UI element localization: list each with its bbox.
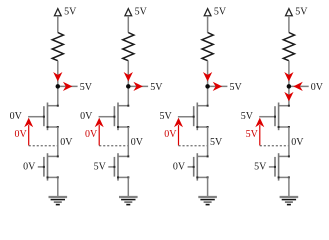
red current arrow into node (circuit 2) <box>125 73 132 81</box>
wire supply to resistor (circuit 1) <box>57 16 59 33</box>
red arrow output current (circuit 1) <box>64 83 72 90</box>
svg-text:5V: 5V <box>159 111 172 122</box>
svg-text:0V: 0V <box>60 137 73 148</box>
red Vgs arrow upper transistor (circuit 3) <box>178 125 180 145</box>
svg-text:5V: 5V <box>295 7 308 18</box>
ground symbol (circuit 3) <box>198 196 217 198</box>
svg-text:5V: 5V <box>230 82 243 93</box>
svg-text:5V: 5V <box>80 82 93 93</box>
ground symbol (circuit 4) <box>280 196 299 198</box>
transistor M1a upper nMOS <box>48 105 58 107</box>
svg-text:0V: 0V <box>14 129 27 140</box>
wire resistor to node (circuit 3) <box>207 61 209 106</box>
node OUT (circuit 4) <box>287 84 292 89</box>
transistor M3b lower nMOS <box>197 155 207 157</box>
wire source to ground (circuit 2) <box>127 177 129 196</box>
svg-text:5V: 5V <box>94 162 107 173</box>
svg-text:5V: 5V <box>254 162 267 173</box>
svg-text:5V: 5V <box>246 129 259 140</box>
wire resistor to node (circuit 2) <box>127 61 129 106</box>
svg-text:5V: 5V <box>64 7 77 18</box>
wire output branch (circuit 3) <box>208 85 228 87</box>
resistor pull-up R4 <box>283 33 294 61</box>
red arrow output current (circuit 3) <box>214 83 222 90</box>
wire output branch (circuit 4) <box>289 85 309 87</box>
transistor M2b lower nMOS <box>118 155 128 157</box>
transistor M1b lower nMOS <box>48 155 58 157</box>
wire supply to resistor (circuit 4) <box>288 16 290 33</box>
red arrow output current (circuit 2) <box>135 83 143 90</box>
red Vgs arrow upper transistor (circuit 1) <box>28 125 30 145</box>
resistor pull-up R2 <box>123 33 134 61</box>
dashed source reference line (circuit 3) <box>179 145 208 147</box>
ground symbol (circuit 1) <box>49 196 68 198</box>
red arrow current into output node (circuit 4) <box>294 83 302 90</box>
red current arrow into node (circuit 3) <box>204 73 211 81</box>
red current arrow into node (circuit 1) <box>54 73 61 81</box>
node OUT (circuit 3) <box>205 84 210 89</box>
transistor M2a upper nMOS <box>118 105 128 107</box>
svg-text:0V: 0V <box>164 129 177 140</box>
transistor M4b lower nMOS <box>279 155 289 157</box>
wire source to drain (circuit 2) <box>127 127 129 156</box>
red Vgs arrow upper transistor (circuit 4) <box>259 125 261 145</box>
dashed source reference line (circuit 2) <box>99 145 128 147</box>
red current arrow into pull-down (circuit 4) <box>285 93 292 101</box>
node OUT (circuit 2) <box>126 84 131 89</box>
wire resistor to node (circuit 4) <box>288 61 290 106</box>
svg-text:0V: 0V <box>85 129 98 140</box>
red current arrow into node (circuit 4) <box>285 73 292 81</box>
resistor pull-up R1 <box>52 33 63 61</box>
wire source to drain (circuit 4) <box>288 127 290 156</box>
svg-text:0V: 0V <box>23 162 36 173</box>
svg-text:0V: 0V <box>10 111 23 122</box>
wire source to drain (circuit 1) <box>57 127 59 156</box>
dashed source reference line (circuit 4) <box>260 145 289 147</box>
red Vgs arrow upper transistor (circuit 2) <box>98 125 100 145</box>
svg-text:0V: 0V <box>173 162 186 173</box>
wire source to ground (circuit 3) <box>207 177 209 196</box>
wire output branch (circuit 1) <box>58 85 78 87</box>
svg-text:5V: 5V <box>150 82 163 93</box>
power supply symbol VDD (circuit 1) <box>54 9 61 16</box>
svg-text:5V: 5V <box>135 7 148 18</box>
svg-text:5V: 5V <box>241 111 254 122</box>
svg-text:5V: 5V <box>214 7 227 18</box>
svg-text:0V: 0V <box>311 82 324 93</box>
transistor M3a upper nMOS <box>197 105 207 107</box>
wire source to ground (circuit 4) <box>288 177 290 196</box>
wire supply to resistor (circuit 2) <box>127 16 129 33</box>
svg-text:5V: 5V <box>210 137 223 148</box>
svg-text:0V: 0V <box>80 111 93 122</box>
wire source to drain (circuit 3) <box>207 127 209 156</box>
power supply symbol VDD (circuit 4) <box>286 9 293 16</box>
ground symbol (circuit 2) <box>119 196 138 198</box>
wire output branch (circuit 2) <box>128 85 148 87</box>
wire supply to resistor (circuit 3) <box>207 16 209 33</box>
transistor M4a upper nMOS <box>279 105 289 107</box>
power supply symbol VDD (circuit 2) <box>125 9 132 16</box>
wire resistor to node (circuit 1) <box>57 61 59 106</box>
svg-text:0V: 0V <box>291 137 304 148</box>
resistor pull-up R3 <box>202 33 213 61</box>
svg-text:0V: 0V <box>131 137 144 148</box>
power supply symbol VDD (circuit 3) <box>204 9 211 16</box>
wire source to ground (circuit 1) <box>57 177 59 196</box>
dashed source reference line (circuit 1) <box>29 145 58 147</box>
node OUT (circuit 1) <box>56 84 61 89</box>
